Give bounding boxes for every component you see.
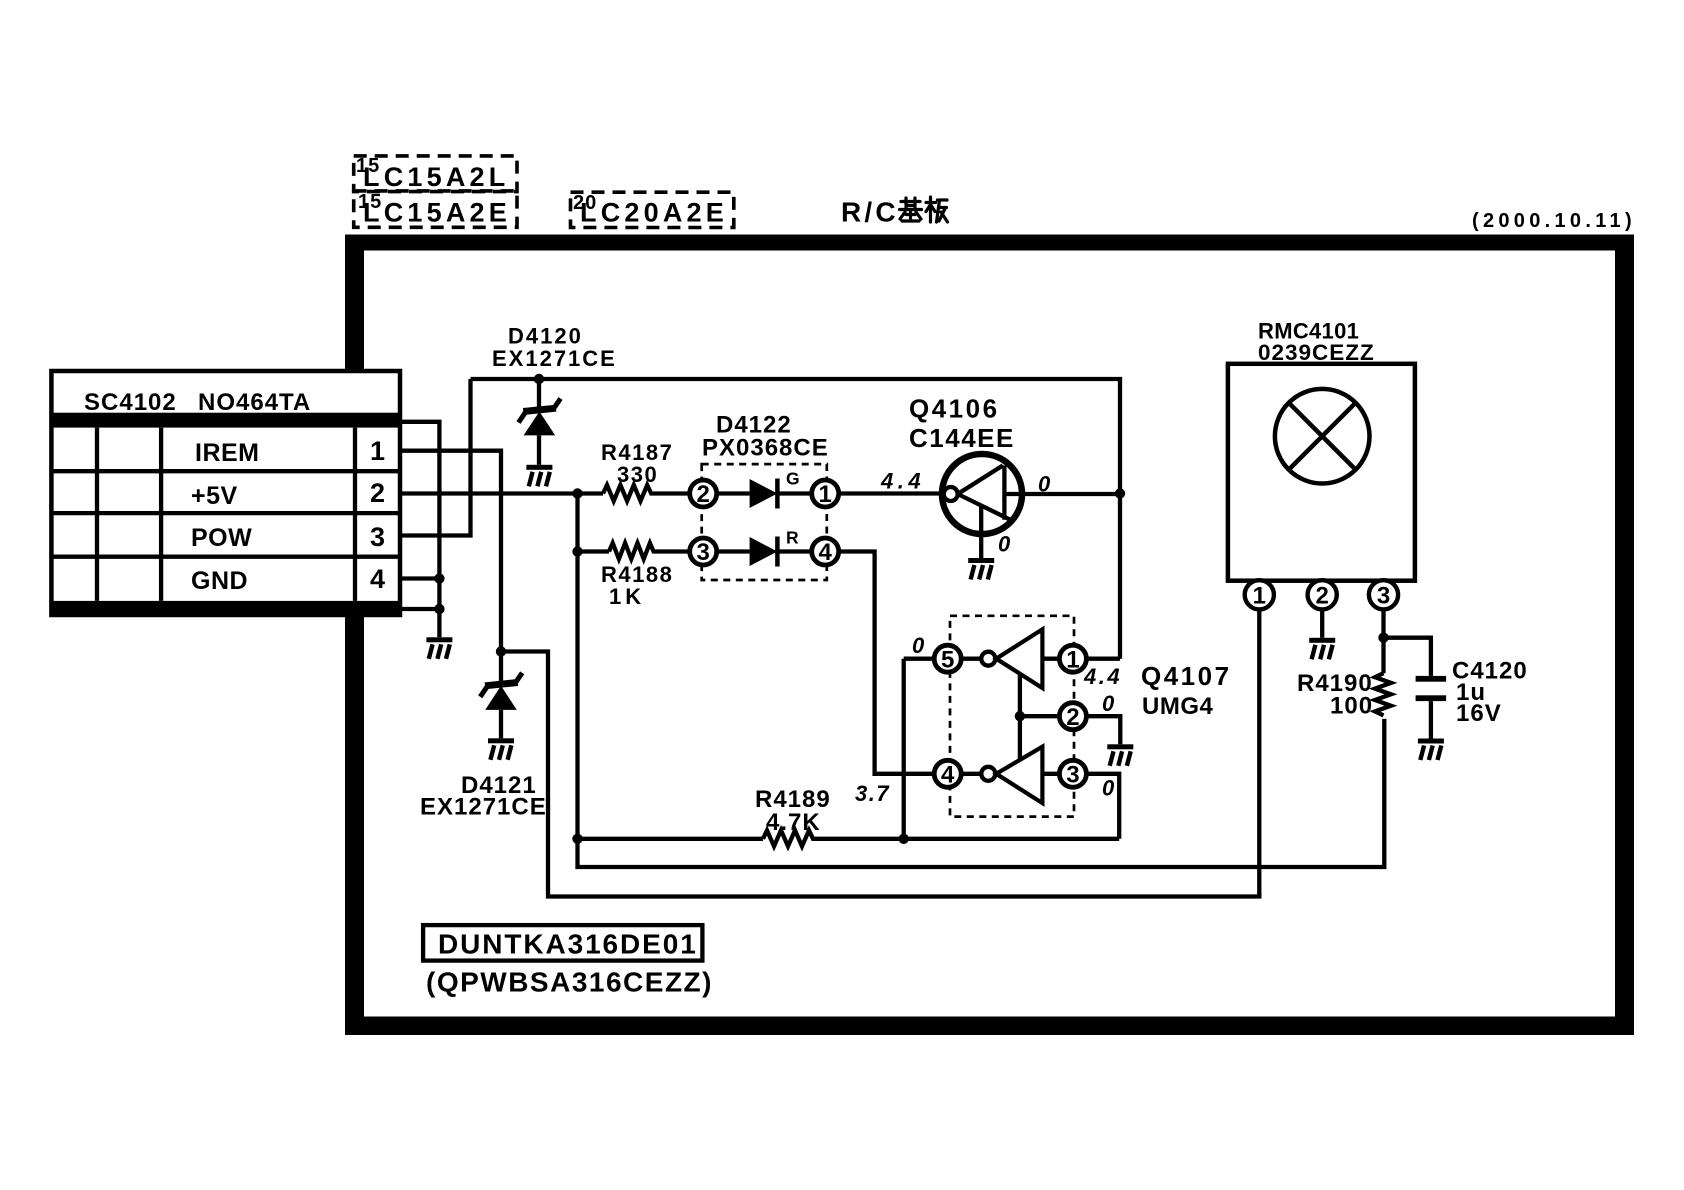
wire GND pin4 — [400, 576, 439, 580]
ground Q4106 emitter — [968, 558, 994, 580]
svg-text:4: 4 — [941, 762, 955, 789]
wire IREM branch to RMC4101 pin1 — [501, 609, 1259, 897]
svg-text:D4120: D4120 — [508, 324, 583, 349]
svg-text:4.7K: 4.7K — [766, 809, 821, 836]
pin 4 of D4122 — [812, 538, 839, 566]
svg-text:C144EE: C144EE — [909, 423, 1015, 453]
svg-text:PX0368CE: PX0368CE — [702, 435, 829, 462]
wire Q4106 collector to node — [1022, 492, 1120, 496]
svg-text:+5V: +5V — [191, 482, 238, 510]
svg-text:2: 2 — [1066, 704, 1079, 731]
svg-text:Q4107: Q4107 — [1141, 661, 1232, 691]
wire Q4107 pin2 to ground — [1085, 716, 1120, 744]
connector SC4102 N0464TA table — [51, 371, 400, 615]
inverter U2 of Q4107 — [960, 747, 1060, 803]
wire +5V rail down — [578, 494, 1385, 868]
wire +5V to R4188 — [578, 549, 610, 553]
svg-text:EX1271CE: EX1271CE — [492, 346, 617, 371]
transistor Q4106 C144EE — [909, 394, 1022, 559]
wire D4122 pin4 to Q4107 pin4 — [838, 552, 936, 774]
dual diode D4122 PX0368CE (dashed box) — [702, 412, 829, 581]
inverter U1 of Q4107 — [960, 629, 1060, 688]
svg-text:3.7: 3.7 — [855, 781, 890, 806]
IR receiver RMC4101 0239CEZZ — [1228, 319, 1415, 581]
wire connector shell top to ground — [400, 422, 439, 638]
svg-text:UMG4: UMG4 — [1142, 693, 1213, 720]
svg-text:LC15A2L: LC15A2L — [363, 162, 509, 192]
svg-text:LC20A2E: LC20A2E — [580, 198, 728, 228]
ground D4121 — [488, 738, 514, 760]
junction shell bottom — [434, 604, 444, 614]
svg-text:IREM: IREM — [195, 439, 260, 467]
resistor R4190 100 — [1297, 670, 1391, 720]
node LC15A2E model box (dashed) — [354, 191, 517, 228]
svg-text:4: 4 — [370, 564, 385, 594]
wire Q4107 pin5 net — [904, 659, 936, 839]
board part number DUNTKA316DE01 — [423, 925, 702, 961]
junction inverter crosslink — [1015, 711, 1025, 721]
svg-text:3: 3 — [370, 522, 385, 552]
svg-text:3: 3 — [1377, 583, 1390, 610]
svg-text:NO464TA: NO464TA — [198, 389, 311, 416]
wire RMC4101 pin3 down — [1381, 609, 1385, 673]
wire inverter outputs crosslink to pin2 — [1020, 674, 1061, 760]
ground connector — [426, 637, 452, 659]
wire POW pin3 up to top rail — [400, 379, 471, 536]
zener diode D4120 — [492, 324, 617, 465]
svg-text:330: 330 — [617, 462, 658, 487]
svg-text:1: 1 — [1066, 646, 1079, 673]
svg-text:1K: 1K — [609, 584, 645, 609]
svg-text:3: 3 — [697, 539, 710, 566]
junction pin5 column R4189 — [899, 834, 909, 844]
svg-text:(QPWBSA316CEZZ): (QPWBSA316CEZZ) — [426, 967, 713, 998]
wire Q4107 pin3 to R4189 net — [1085, 774, 1119, 839]
junction IREM D4121 — [496, 646, 506, 656]
svg-text:SC4102: SC4102 — [84, 389, 177, 416]
svg-text:0: 0 — [1102, 691, 1115, 716]
svg-text:EX1271CE: EX1271CE — [420, 794, 547, 821]
resistor R4187 330 — [601, 440, 691, 501]
pin 2 of D4122 — [690, 480, 717, 508]
wire +5V pin2 to R4187 — [400, 491, 603, 495]
junction Q4106 collector — [1115, 488, 1125, 498]
svg-text:4.4: 4.4 — [880, 469, 925, 494]
pin 2 of Q4107 — [1059, 703, 1086, 731]
svg-text:1: 1 — [370, 436, 385, 466]
svg-text:2: 2 — [697, 481, 710, 508]
junction +5V R4188 — [572, 546, 582, 556]
svg-text:G: G — [786, 469, 800, 489]
svg-text:16V: 16V — [1456, 700, 1502, 727]
board outline frame — [345, 235, 1634, 1036]
svg-text:Q4106: Q4106 — [909, 394, 1000, 424]
svg-text:0: 0 — [1038, 472, 1051, 497]
wire Q4107 pin1 to collector column — [1085, 657, 1120, 661]
capacitor C4120 1u 16V — [1384, 638, 1528, 739]
pin 1 of Q4107 — [1059, 645, 1086, 673]
node LC20A2E model box (dashed) — [571, 192, 734, 228]
junction pin3 C4120 — [1378, 633, 1388, 643]
resistor R4188 1K — [601, 543, 691, 609]
pin 1 of RMC4101 — [1245, 580, 1274, 609]
svg-text:2: 2 — [370, 478, 385, 508]
svg-text:GND: GND — [191, 567, 248, 595]
junction +5V rail R4189 — [572, 834, 582, 844]
wire D4122 pin1 to Q4106 base — [838, 491, 941, 495]
resistor R4189 4.7K — [578, 786, 1120, 846]
wire top rail to Q4107 pin1 column — [471, 379, 1121, 659]
ground RMC4101 pin2 — [1309, 638, 1335, 660]
node title R/C board — [841, 197, 948, 228]
svg-text:1: 1 — [819, 481, 832, 508]
pin 2 of RMC4101 — [1308, 580, 1337, 609]
junction D4120 top — [534, 374, 544, 384]
pin 3 of D4122 — [690, 538, 717, 566]
svg-text:0239CEZZ: 0239CEZZ — [1258, 340, 1375, 365]
diode D4122-G — [716, 469, 813, 509]
junction +5V R4187 — [572, 488, 582, 498]
node LC15A2L model box (dashed) — [354, 155, 517, 192]
ground Q4107 pin2 — [1107, 744, 1133, 766]
pin 1 of D4122 — [812, 480, 839, 508]
svg-text:1: 1 — [1253, 583, 1266, 610]
svg-text:LC15A2E: LC15A2E — [363, 198, 511, 228]
svg-text:0: 0 — [1102, 776, 1115, 801]
wire connector shell bottom — [400, 607, 439, 611]
ground C4120 — [1418, 739, 1444, 761]
svg-text:0: 0 — [998, 532, 1011, 557]
ground D4120 — [526, 465, 552, 487]
svg-text:4: 4 — [819, 539, 833, 566]
pin 5 of Q4107 — [934, 645, 961, 673]
inverter array Q4107 UMG4 (dashed box) — [950, 616, 1232, 817]
svg-text:2: 2 — [1316, 583, 1329, 610]
svg-text:0: 0 — [912, 633, 925, 658]
wire IREM pin1 to D4121 node — [400, 451, 501, 652]
pin 3 of Q4107 — [1059, 760, 1086, 788]
wire RMC4101 pin2 to ground — [1320, 609, 1324, 638]
junction GND pin4 — [434, 573, 444, 583]
pin 4 of Q4107 — [934, 760, 961, 788]
svg-text:100: 100 — [1330, 693, 1373, 720]
zener diode D4121 — [420, 652, 547, 821]
svg-text:3: 3 — [1066, 762, 1079, 789]
svg-text:R/C: R/C — [841, 197, 899, 228]
svg-text:DUNTKA316DE01: DUNTKA316DE01 — [438, 929, 698, 960]
svg-text:5: 5 — [941, 646, 954, 673]
svg-text:R: R — [786, 528, 799, 548]
svg-text:4.4: 4.4 — [1083, 664, 1122, 689]
svg-text:(2000.10.11): (2000.10.11) — [1472, 210, 1636, 232]
svg-text:POW: POW — [191, 524, 252, 552]
pin 3 of RMC4101 — [1369, 580, 1398, 609]
diode D4122-R — [716, 528, 813, 567]
